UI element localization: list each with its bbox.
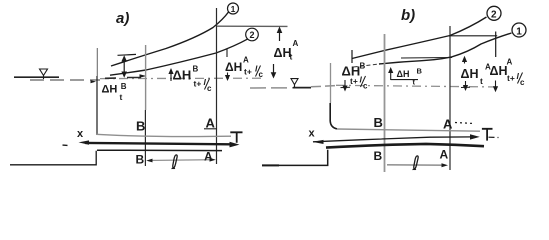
horizontal tick at curve1 level at A (b) (401, 57, 452, 60)
svg-text:x: x (309, 128, 316, 140)
svg-text:t+: t+ (194, 79, 202, 89)
svg-text:c: c (363, 82, 368, 91)
dH_t^A bottom arrow (b) (465, 81, 467, 89)
svg-text:B: B (374, 149, 383, 163)
curve 2 (a) (110, 39, 248, 75)
tick at curve1 level at B (118, 53, 137, 56)
pipe axis x (a): thick line with arrows (85, 143, 230, 144)
section line B (a) (145, 45, 147, 110)
dH^A_{t+l/c} tick on curve2 (226, 49, 228, 58)
svg-text:A: A (243, 56, 249, 65)
up arrow under curve1 at B (b) (390, 70, 392, 81)
svg-text:t: t (413, 78, 416, 87)
reservoir wall b (330, 63, 332, 103)
svg-text:B: B (360, 62, 366, 71)
reservoir wall a (96, 48, 98, 76)
pipe top line (b) (337, 129, 480, 131)
svg-text:B: B (136, 119, 145, 134)
pipe bottom thick line (b) (326, 144, 484, 148)
svg-text:c: c (520, 78, 525, 87)
ground with step (b) (262, 150, 328, 166)
valve T (a) (230, 132, 242, 143)
svg-text:2: 2 (491, 10, 497, 21)
horizontal line at curve1 level at A (217, 25, 288, 27)
svg-text:B: B (374, 115, 383, 130)
node 2 circle (a) (246, 28, 259, 41)
section line A (a) (216, 8, 218, 164)
svg-text:ΔH: ΔH (173, 68, 192, 83)
horizontal line at curve2 level at A (b) (449, 35, 497, 37)
pipe bottom line (a) (97, 149, 222, 151)
water surface dashes a (30, 79, 100, 81)
node 2 circle (b) (487, 6, 501, 20)
bottom arrow of dH^B (b) (344, 80, 346, 90)
ground with step (a) (10, 151, 96, 165)
svg-text:a): a) (116, 10, 129, 27)
svg-text:A: A (204, 150, 213, 164)
svg-text:A: A (507, 58, 513, 67)
nabla water mark b (291, 79, 298, 88)
left tick (b) (351, 50, 353, 63)
small arrow on dash line at B (140, 74, 147, 78)
svg-text:t+: t+ (244, 67, 252, 77)
svg-text:B: B (417, 67, 423, 76)
curve 2 (b) (352, 17, 487, 59)
small arrow on dash line near wall (91, 80, 97, 83)
svg-text:1: 1 (516, 26, 522, 37)
svg-text:ΔH: ΔH (102, 84, 118, 96)
steady HGL dash-dot line a (100, 77, 261, 79)
curve 1 (a) (111, 12, 229, 66)
length label l (b) (413, 156, 419, 170)
section line A (b) (449, 26, 451, 170)
steady HGL dash-dot line b (336, 85, 500, 87)
svg-text:2: 2 (250, 30, 255, 40)
svg-text:ΔH: ΔH (490, 64, 508, 78)
svg-text:A: A (440, 148, 449, 162)
svg-text:A: A (443, 117, 453, 132)
dH_t^B double arrow (123, 58, 125, 76)
svg-text:1: 1 (231, 4, 236, 14)
dH^A_{t+l/c} bottom arrow (227, 73, 229, 79)
vertical drop from that line (b) (495, 32, 497, 58)
nabla water mark a (40, 69, 48, 79)
svg-text:A: A (293, 39, 299, 48)
curve 1 (b) start dashed (354, 64, 380, 67)
water surface line (left reservoir a) (14, 76, 59, 78)
svg-text:t: t (480, 76, 483, 86)
svg-text:t+: t+ (507, 73, 515, 83)
section line B (b) (384, 34, 386, 172)
underline of dH_t^B (b) (391, 79, 418, 81)
dimension line l (a) (149, 159, 213, 162)
svg-text:t: t (120, 92, 123, 102)
valve T (b) (482, 129, 493, 141)
dH_t^A up arrow (b) (464, 59, 466, 64)
node 1 circle (a) (228, 3, 239, 14)
svg-text:B: B (193, 65, 199, 74)
dotted leader right of A (b) (455, 123, 474, 124)
dimension line l (b) (387, 164, 444, 166)
svg-text:c: c (259, 70, 264, 79)
node 1 circle (b) (512, 23, 526, 37)
svg-text:t+: t+ (350, 76, 358, 86)
svg-text:c: c (207, 84, 212, 93)
svg-text:B: B (136, 153, 145, 167)
dH_t^A bottom arrow (273, 64, 275, 76)
svg-text:ΔH: ΔH (461, 67, 479, 81)
pipe top line (a) (96, 134, 231, 136)
dH^A_{t+l/c} bottom arrow (b) (495, 81, 497, 91)
svg-text:ΔH: ΔH (397, 69, 410, 79)
pipe axis x (b) (313, 137, 474, 142)
length label l (a) (172, 155, 178, 169)
svg-text:t: t (290, 52, 293, 62)
curve 1 (b) (379, 33, 512, 64)
svg-text:x: x (77, 128, 84, 140)
svg-text:b): b) (401, 7, 415, 24)
svg-text:B: B (121, 82, 127, 91)
dH_t^A top arrow (279, 29, 281, 41)
water surface line (reservoir b) (250, 87, 293, 89)
dH^B_{t+l/c} label with up arrow (170, 71, 172, 82)
svg-text:ΔH: ΔH (225, 60, 242, 74)
